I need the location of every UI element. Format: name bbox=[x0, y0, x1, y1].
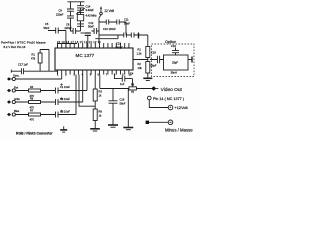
svg-text:3-30pF: 3-30pF bbox=[86, 8, 95, 12]
wire branch pin18 bbox=[70, 2, 72, 31]
resistor R1a 47k bbox=[38, 53, 42, 63]
svg-text:C14: C14 bbox=[86, 5, 91, 9]
capacitor C3 10uF bbox=[56, 112, 59, 118]
capacitor C2 10uF bbox=[56, 99, 59, 105]
svg-text:C17 1uF: C17 1uF bbox=[18, 63, 28, 67]
capacitor C18 bbox=[157, 56, 159, 63]
IC U1 MC1377 body bbox=[55, 48, 133, 70]
svg-text:C12: C12 bbox=[89, 21, 94, 25]
ground below R2 bbox=[143, 77, 152, 79]
capacitor C4 1uF bbox=[114, 75, 132, 87]
svg-text:Minus / Masse: Minus / Masse bbox=[165, 127, 193, 132]
connector green input bbox=[7, 100, 11, 104]
wire junction R1 R2 bbox=[133, 58, 148, 62]
svg-text:Pin 14 ( MC 1377 ): Pin 14 ( MC 1377 ) bbox=[153, 97, 184, 101]
wire rail C10 bbox=[99, 22, 126, 35]
wire pin stubs top bbox=[58, 43, 129, 48]
resistor R6 470 bbox=[29, 101, 41, 104]
wire ref rail 8.2V bbox=[40, 50, 49, 72]
wire red row bbox=[15, 75, 87, 91]
svg-text:R2: R2 bbox=[138, 62, 142, 66]
legend pin14 circle bbox=[148, 96, 152, 100]
capacitor C1 10uF bbox=[56, 88, 59, 94]
svg-text:+12Volt: +12Volt bbox=[175, 105, 189, 110]
svg-text:Rot: Rot bbox=[14, 85, 18, 89]
wire aux rail bbox=[95, 35, 118, 39]
resistor R7 470 bbox=[29, 113, 41, 116]
ground under C16 bbox=[108, 124, 118, 126]
arrow video out bbox=[151, 86, 156, 91]
svg-text:Blau: Blau bbox=[14, 109, 20, 113]
capacitor C9b bbox=[67, 16, 74, 18]
svg-text:33pF: 33pF bbox=[172, 61, 178, 65]
svg-text:Grün: Grün bbox=[14, 97, 20, 101]
wire pin10 to video row bbox=[99, 75, 101, 89]
connector red input bbox=[7, 89, 11, 93]
wire sync row bbox=[11, 75, 62, 80]
svg-text:C8: C8 bbox=[66, 22, 70, 26]
ground under C4 branch bbox=[123, 127, 133, 129]
wire pin5 to divider junction bbox=[79, 75, 95, 107]
12V terminal bbox=[100, 12, 103, 15]
ground under R8 bbox=[90, 128, 100, 130]
resistor R9 75 bbox=[129, 87, 137, 90]
capacitor C11a bbox=[124, 33, 127, 38]
resistor R2 10k bbox=[146, 62, 150, 74]
svg-text:C4: C4 bbox=[130, 72, 134, 76]
capacitor C17 1uF bbox=[22, 68, 24, 74]
svg-text:220pF: 220pF bbox=[65, 26, 73, 30]
svg-text:1uF: 1uF bbox=[120, 82, 125, 86]
svg-text:+: + bbox=[169, 106, 171, 110]
wire pin stubs bottom bbox=[58, 70, 129, 75]
svg-text:8.2 V Ref. Pin 16: 8.2 V Ref. Pin 16 bbox=[4, 45, 26, 49]
capacitor C12 bbox=[92, 28, 100, 34]
wire R2 to ground bbox=[147, 73, 149, 78]
svg-text:Sync.: Sync. bbox=[13, 74, 20, 78]
wire branch pin17 bbox=[80, 2, 82, 31]
terminal +12V bbox=[168, 105, 173, 110]
resistor R3 1k bbox=[93, 89, 97, 101]
capacitor C10a bbox=[106, 20, 108, 25]
capacitor C13 bbox=[81, 32, 85, 34]
svg-text:56pF: 56pF bbox=[151, 64, 157, 68]
legend minus square bbox=[146, 121, 149, 124]
capacitor C19 bbox=[172, 48, 179, 56]
connector sync input bbox=[7, 77, 11, 81]
capacitor C6 bbox=[77, 6, 84, 8]
capacitor C9 bbox=[67, 9, 74, 11]
resistor R8 1k bbox=[93, 109, 97, 121]
svg-text:C11: C11 bbox=[124, 18, 129, 22]
LC tank loop bbox=[164, 55, 189, 70]
resistor R4 470 bbox=[29, 89, 41, 92]
wire rail C11 bbox=[99, 35, 148, 47]
svg-text:C16: C16 bbox=[120, 98, 125, 102]
wire into C18 bbox=[150, 59, 164, 61]
svg-text:56nF: 56nF bbox=[124, 22, 130, 26]
capacitor C5 bbox=[48, 28, 66, 49]
svg-text:220pF: 220pF bbox=[56, 12, 64, 16]
wire blue row bbox=[15, 75, 76, 115]
wire osc top rail bbox=[68, 1, 85, 3]
svg-text:C19: C19 bbox=[171, 44, 176, 48]
svg-text:12 Volt: 12 Volt bbox=[104, 9, 114, 13]
capacitor C8 bbox=[70, 28, 81, 34]
svg-text:C1 10uF: C1 10uF bbox=[60, 85, 70, 89]
svg-text:Video Out: Video Out bbox=[161, 87, 183, 93]
wire tank out bbox=[188, 59, 192, 61]
svg-text:C9: C9 bbox=[59, 9, 63, 13]
svg-text:R3: R3 bbox=[99, 90, 103, 94]
capacitor C16 56nF bbox=[109, 89, 118, 125]
svg-text:39nH: 39nH bbox=[171, 70, 177, 74]
wire video row bbox=[100, 89, 152, 128]
svg-text:RGB / FBAS Converter: RGB / FBAS Converter bbox=[16, 131, 53, 135]
resistor R1 1.2k bbox=[146, 47, 150, 58]
svg-text:MC 1377: MC 1377 bbox=[76, 53, 95, 58]
svg-text:20 19 18 17 16 15 14 13 12 11: 20 19 18 17 16 15 14 13 12 11 bbox=[57, 41, 101, 44]
svg-text:C3 10uF: C3 10uF bbox=[60, 109, 70, 113]
svg-text:R8: R8 bbox=[99, 110, 103, 114]
svg-text:R1: R1 bbox=[32, 53, 36, 57]
svg-text:47k: 47k bbox=[31, 57, 36, 61]
capacitor C11b bbox=[131, 33, 134, 38]
crystal Q 4.43MHz bbox=[77, 15, 83, 21]
option dashed box bbox=[152, 44, 195, 77]
wire top step pins 20-17 bbox=[58, 44, 78, 49]
capacitor C14 trimmer bbox=[76, 8, 85, 14]
svg-text:4.43 MHz: 4.43 MHz bbox=[86, 14, 98, 18]
capacitor C13b bbox=[77, 24, 84, 26]
svg-text:C2 10uF: C2 10uF bbox=[60, 97, 70, 101]
svg-text:1.2k: 1.2k bbox=[137, 52, 143, 56]
svg-text:C15: C15 bbox=[116, 42, 121, 46]
svg-text:56nF: 56nF bbox=[44, 26, 50, 30]
svg-text:C18: C18 bbox=[151, 51, 156, 55]
svg-text:75: 75 bbox=[131, 90, 134, 94]
svg-text:R1: R1 bbox=[138, 48, 142, 52]
svg-text:C5: C5 bbox=[45, 22, 49, 26]
svg-text:56nF: 56nF bbox=[120, 101, 126, 105]
terminal minus bbox=[168, 120, 173, 125]
legend wire to +12V bbox=[149, 100, 168, 108]
ground stub left bbox=[63, 126, 65, 129]
wire 12V down bbox=[99, 15, 101, 43]
wire green row bbox=[15, 75, 82, 103]
svg-text:560pF: 560pF bbox=[116, 46, 124, 50]
svg-text:C10 100nF: C10 100nF bbox=[103, 27, 116, 31]
svg-text:470: 470 bbox=[30, 117, 35, 121]
svg-text:10k: 10k bbox=[138, 66, 143, 70]
node T bar bbox=[138, 33, 140, 39]
capacitor C10b bbox=[117, 20, 119, 25]
legend wire to minus bbox=[149, 121, 168, 123]
svg-text:56nF: 56nF bbox=[88, 25, 94, 29]
wire C17 line bbox=[11, 70, 57, 75]
svg-text:Pal=Plus / NTSC Pin20 Masse: Pal=Plus / NTSC Pin20 Masse bbox=[1, 40, 46, 44]
connector blue input bbox=[7, 113, 11, 117]
svg-text:Option: Option bbox=[165, 40, 176, 44]
